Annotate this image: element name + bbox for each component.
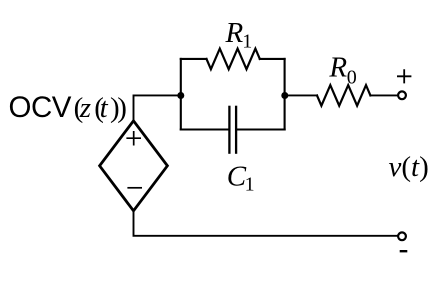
wire: right node to resistor R0 <box>285 94 317 96</box>
terminal: positive output (open circle) <box>398 91 406 99</box>
wire: top rail from corner above source to left node <box>134 95 181 119</box>
node dot: left junction <box>177 92 184 99</box>
svg-text:R: R <box>328 52 347 84</box>
resistor R1 zigzag <box>207 49 260 70</box>
wire: top side of box, resistor R1 to right vertical <box>260 58 285 60</box>
node dot: right junction <box>281 92 288 99</box>
polarity minus inside diamond <box>127 187 142 189</box>
wire: left vertical of RC parallel box <box>180 59 182 130</box>
wire: top side of box, left stub to resistor R1 <box>181 58 207 60</box>
svg-text:1: 1 <box>245 174 255 196</box>
resistor R0 zigzag <box>317 85 370 106</box>
dependent source U1: diamond body <box>100 121 168 211</box>
plus sign at positive terminal <box>397 69 411 83</box>
wire: source bottom to bottom rail corner <box>134 210 398 236</box>
wire: right vertical of RC parallel box <box>284 59 286 130</box>
svg-text:1: 1 <box>242 31 252 53</box>
minus sign at negative terminal <box>400 250 408 252</box>
wire: bottom side of box, capacitor to right vertical <box>237 128 284 130</box>
terminal: negative output (open circle) <box>398 232 406 240</box>
capacitor C1 right plate <box>235 106 237 154</box>
svg-text:v(t): v(t) <box>389 151 429 183</box>
svg-text:R: R <box>225 17 244 49</box>
svg-text:0: 0 <box>347 67 357 89</box>
capacitor C1 left plate <box>228 106 230 154</box>
polarity plus inside diamond <box>126 131 141 146</box>
wire: bottom side of box, left vertical to capacitor <box>181 128 228 130</box>
svg-text:OCV(z(t)): OCV(z(t)) <box>9 91 127 124</box>
wire: resistor R0 to positive terminal <box>370 94 398 96</box>
